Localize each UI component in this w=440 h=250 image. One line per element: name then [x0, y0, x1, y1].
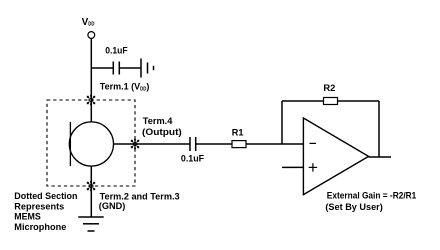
svg-text:MEMS: MEMS: [14, 212, 41, 222]
resistor R1 body: [232, 141, 246, 148]
capacitor 0.1uF coupling plates: [189, 137, 191, 151]
wire capacitor to R1: [196, 143, 232, 145]
feedback wire right vertical: [378, 101, 380, 157]
ground symbol (3 bars): [78, 216, 103, 218]
svg-text:0.1uF: 0.1uF: [181, 153, 205, 163]
MEMS microphone body circle: [69, 122, 113, 166]
feedback wire left vertical: [281, 101, 283, 144]
op-amp output wire: [369, 156, 392, 158]
feedback wire top right segment: [338, 100, 380, 102]
feedback wire top left segment: [282, 100, 324, 102]
wire mic output to coupling capacitor: [113, 143, 190, 145]
capacitor C bypass 0.1uF plates: [112, 62, 114, 75]
svg-text:Microphone: Microphone: [14, 222, 66, 232]
svg-text:Term.2 and Term.3: Term.2 and Term.3: [100, 191, 180, 201]
svg-text:R1: R1: [232, 127, 244, 137]
wire VDD down to mic Term.1: [90, 38, 92, 122]
op-amp plus sign: [309, 166, 317, 168]
svg-text:(GND): (GND): [99, 201, 126, 211]
terminal marker Term.2 and Term.3: [87, 181, 95, 191]
svg-text:Term.1 (VDD): Term.1 (VDD): [100, 82, 150, 93]
resistor R2 body: [324, 98, 338, 105]
MEMS microphone dashed enclosure: [47, 100, 135, 186]
wire mic to ground: [90, 166, 92, 217]
ground (sideways, 3 bars): [140, 59, 142, 78]
op-amp U1 triangle: [303, 118, 368, 195]
svg-text:Term.4: Term.4: [143, 116, 173, 126]
mic membrane line: [69, 122, 71, 166]
wire branch to bypass capacitor: [91, 67, 113, 69]
wire R1 to op-amp inverting input: [246, 143, 303, 145]
svg-text:R2: R2: [323, 83, 335, 93]
non-inverting input stub wire: [282, 166, 303, 168]
svg-text:0.1uF: 0.1uF: [105, 46, 128, 56]
svg-text:External Gain = -R2/R1: External Gain = -R2/R1: [327, 191, 417, 201]
terminal marker Term.1: [87, 95, 95, 105]
op-amp minus sign: [310, 142, 317, 144]
svg-text:(Output): (Output): [142, 127, 182, 137]
VDD terminal circle: [88, 32, 95, 39]
svg-text:Dotted Section: Dotted Section: [14, 191, 77, 201]
wire capacitor to ground: [119, 67, 141, 69]
svg-text:(Set By User): (Set By User): [325, 202, 382, 212]
terminal marker Term.4: [131, 139, 139, 149]
svg-text:Represents: Represents: [14, 201, 64, 211]
svg-text:VDD: VDD: [82, 17, 95, 28]
